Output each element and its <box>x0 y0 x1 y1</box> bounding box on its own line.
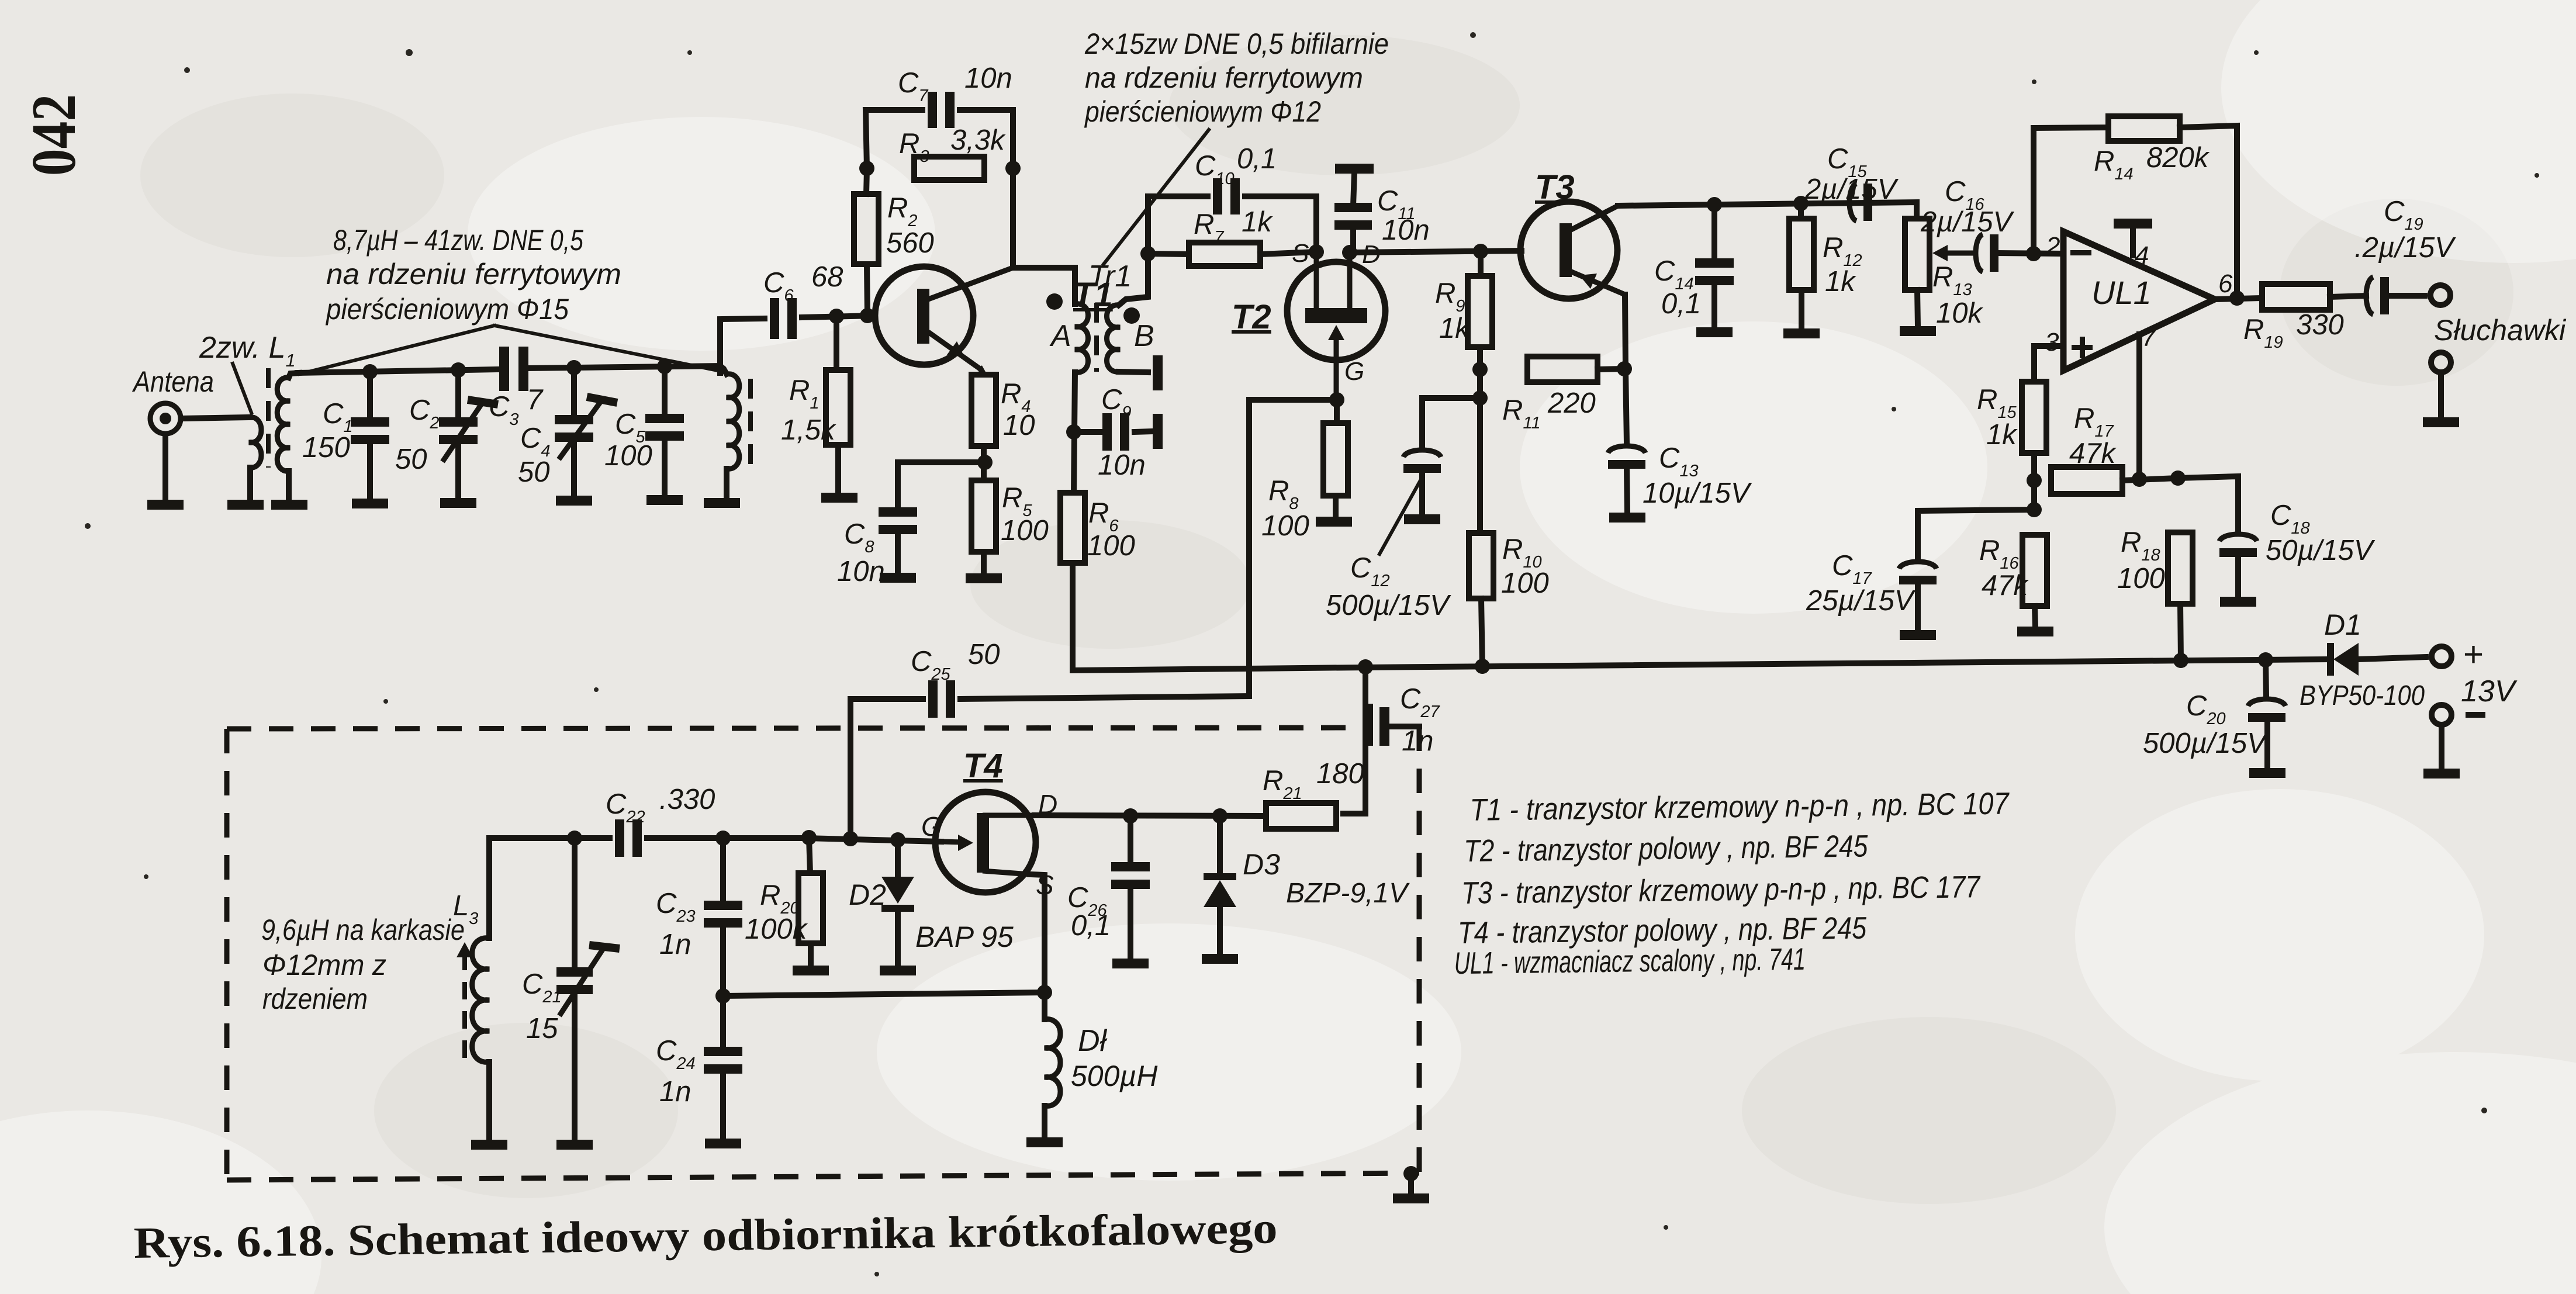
ground R8 <box>1316 517 1352 527</box>
svg-text:100: 100 <box>1001 515 1049 546</box>
transistor T1 (npn) <box>875 267 1013 369</box>
svg-text:100k: 100k <box>745 914 808 945</box>
svg-text:10k: 10k <box>1936 297 1984 329</box>
wire R19 to C19 <box>2330 296 2366 297</box>
svg-text:330: 330 <box>2296 309 2344 341</box>
wire R17 right <box>2122 478 2178 480</box>
wire C2 down <box>455 440 461 498</box>
label C1 150 <box>302 398 353 463</box>
wire antenna down <box>162 434 168 500</box>
capacitor C14 <box>1695 258 1734 285</box>
phase dot B <box>1123 307 1140 324</box>
node R20 tap <box>801 830 817 845</box>
wire T4 drain line <box>1035 815 1266 816</box>
wire feedback right <box>2180 126 2237 298</box>
tuning arrow L3 <box>457 942 473 1058</box>
svg-text:220: 220 <box>1547 387 1596 419</box>
node rail R10 <box>1475 659 1490 674</box>
node T2 source <box>1309 244 1324 260</box>
wire C4 <box>571 368 577 419</box>
wire C21 down <box>572 991 578 1140</box>
ground R20 <box>793 966 829 975</box>
wire R1 top <box>834 316 839 370</box>
label C5 100 <box>604 409 652 472</box>
resistor R2 <box>854 194 879 264</box>
svg-text:7: 7 <box>527 384 544 416</box>
svg-text:180: 180 <box>1316 758 1364 790</box>
wire to C8 <box>898 462 985 507</box>
node C26 tap <box>1123 808 1138 824</box>
label C20 500u/15V <box>2143 690 2269 759</box>
resistor R14 <box>2108 116 2180 141</box>
ground battery <box>2423 769 2460 779</box>
wire Dl down <box>1042 1106 1047 1137</box>
wiper arrow R13 <box>1932 245 1973 261</box>
svg-text:2µ/15V: 2µ/15V <box>1920 206 2015 238</box>
svg-text:na rdzeniu ferrytowym: na rdzeniu ferrytowym <box>326 258 621 290</box>
capacitor C22 <box>615 819 642 857</box>
resistor R1 <box>826 370 850 445</box>
ground L2 left <box>271 500 307 510</box>
wire R6 down to rail <box>1073 563 1362 670</box>
capacitor C1 <box>351 417 389 444</box>
svg-text:100: 100 <box>1261 510 1309 542</box>
svg-text:9,6µH na karkasie: 9,6µH na karkasie <box>261 914 465 946</box>
wire rail to R21 <box>1343 667 1365 814</box>
svg-text:0,1: 0,1 <box>1661 288 1701 320</box>
wire emitter to R4 <box>981 369 984 375</box>
label R10 100 <box>1501 534 1549 599</box>
pointer line L1 <box>233 364 251 413</box>
capacitor C17 (electrolytic) <box>1899 562 1937 584</box>
node source/osc tap <box>1037 985 1052 1000</box>
ground C1 <box>352 499 388 508</box>
label L3 <box>453 890 478 928</box>
svg-text:47k: 47k <box>1982 570 2029 601</box>
label C6 68 <box>763 261 843 305</box>
wire R11 right <box>1598 369 1624 369</box>
wire T3 collector line <box>1618 202 1917 219</box>
wire R15 to node <box>2031 453 2037 508</box>
svg-text:15: 15 <box>526 1013 558 1044</box>
wire D2 top <box>895 840 901 876</box>
label R17 47k <box>2069 403 2117 469</box>
svg-text:1k: 1k <box>1439 313 1471 344</box>
node D2 tap <box>890 832 905 847</box>
wire L2 right top curve <box>720 366 727 374</box>
label C17 25u/15V <box>1806 550 1916 617</box>
label R5 100 <box>1001 482 1049 546</box>
core line L2 right <box>748 379 753 468</box>
node C2 tap <box>451 362 466 378</box>
node R15/R17 <box>2027 473 2042 488</box>
wire R10 to rail <box>1481 598 1482 666</box>
wire C9 left <box>1074 429 1100 435</box>
wire Tr1 B bottom <box>1119 372 1148 372</box>
resistor R6 <box>1060 493 1085 563</box>
wire C10 loop <box>1148 196 1208 254</box>
wire Tr1 B top <box>1119 254 1148 305</box>
label Dl <box>1078 1024 1108 1058</box>
node output <box>2229 290 2245 306</box>
label R21 180 <box>1263 758 1364 803</box>
svg-text:2×15zw DNE 0,5 bifilarnie: 2×15zw DNE 0,5 bifilarnie <box>1084 27 1389 60</box>
wire R9 bottom <box>1477 347 1483 409</box>
terminal headphones + <box>2430 285 2450 305</box>
ground C20 <box>2249 768 2285 778</box>
wire C9 right <box>1135 431 1153 432</box>
core line L1 <box>266 368 271 468</box>
wire L2 left top curve <box>289 373 299 378</box>
resistor R18 <box>2168 532 2193 604</box>
svg-text:10µ/15V: 10µ/15V <box>1643 478 1752 509</box>
diode D2 <box>881 877 914 912</box>
wire T3 emitter down <box>1625 295 1626 369</box>
svg-text:.2µ/15V: .2µ/15V <box>2354 232 2456 264</box>
wire emitter to C13 <box>1626 369 1627 443</box>
capacitor C9 <box>1102 413 1129 451</box>
node R12 tap <box>1793 196 1809 211</box>
svg-text:50: 50 <box>395 444 427 475</box>
wire output to R19 <box>2215 298 2261 299</box>
wire pin3 to R15 <box>2034 346 2062 381</box>
svg-text:Słuchawki: Słuchawki <box>2434 314 2567 347</box>
svg-text:820k: 820k <box>2146 142 2210 174</box>
node rail R18 <box>2173 653 2188 668</box>
ground R12 <box>1783 328 1820 338</box>
resistor R21 <box>1266 803 1336 829</box>
ground D3 <box>1202 954 1238 964</box>
svg-text:pierścieniowym Φ15: pierścieniowym Φ15 <box>325 293 569 326</box>
ground Dl <box>1026 1137 1063 1147</box>
wire tank bus right <box>529 366 720 368</box>
label C7 10n <box>898 63 1012 105</box>
capacitor C4 (variable) <box>555 415 593 442</box>
diode D1 <box>2327 643 2359 676</box>
ground C13 <box>1609 513 1645 523</box>
wire C5 down <box>662 436 668 495</box>
capacitor C3 (series) <box>499 347 528 391</box>
node C23/C24 <box>715 988 731 1004</box>
svg-text:2zw. L1: 2zw. L1 <box>199 331 296 371</box>
label 2zw. L1 <box>199 331 296 371</box>
label C8 10n <box>837 518 885 587</box>
capacitor C7 <box>928 92 955 128</box>
wire C21 <box>572 838 578 970</box>
wire R9 top <box>1478 251 1484 276</box>
capacitor C8 <box>879 507 917 534</box>
wire L2 left down <box>286 471 292 500</box>
wire C22 right <box>647 835 807 841</box>
svg-text:100: 100 <box>1087 530 1135 562</box>
label C12 500u/15V <box>1326 552 1451 621</box>
wire Tr1 A bottom down <box>1074 372 1075 493</box>
resistor R15 <box>2022 382 2046 453</box>
resistor R13 (pot) <box>1905 219 1930 290</box>
wire R4 to R5 <box>981 446 987 480</box>
label R18 100 <box>2117 527 2165 594</box>
ground C5 <box>646 495 683 505</box>
capacitor C2 (variable) <box>439 417 478 444</box>
wire to C17 <box>1918 510 2034 559</box>
label R19 330 <box>2243 309 2344 352</box>
wire C24 down <box>720 1072 726 1139</box>
label R9 1k <box>1435 278 1471 344</box>
node C4 tap <box>566 360 582 375</box>
svg-text:2: 2 <box>2045 232 2060 261</box>
wire R5 down <box>981 552 987 573</box>
wire C5 <box>662 366 668 418</box>
svg-text:D1: D1 <box>2324 608 2361 641</box>
label C9 10n <box>1098 384 1146 481</box>
node R1 tap <box>829 309 844 324</box>
wire C12 down <box>1419 473 1425 514</box>
terminal -13V <box>2432 705 2451 725</box>
wire R12 down <box>1799 290 1804 328</box>
ground R1 <box>821 493 857 503</box>
capacitor C16 (electrolytic) <box>1976 234 1998 272</box>
node R18 tap <box>2170 470 2186 486</box>
svg-text:1k: 1k <box>1242 206 1273 238</box>
ground antenna <box>147 500 184 510</box>
wire C12 branch <box>1422 398 1480 447</box>
node C23 tap <box>715 831 731 846</box>
wire D1 to terminal <box>2359 657 2426 659</box>
wire C26 <box>1128 816 1133 864</box>
ground C14 <box>1696 327 1733 337</box>
wire C20 branch <box>2266 660 2266 696</box>
capacitor C25 <box>928 680 955 718</box>
svg-text:100: 100 <box>2117 563 2165 594</box>
ground C17 <box>1900 630 1936 640</box>
wire gate to R8 <box>1334 400 1340 423</box>
svg-text:UL1: UL1 <box>2091 274 2152 311</box>
wire to C18 <box>2178 476 2238 531</box>
phase dot A <box>1046 293 1063 310</box>
arrow C21 <box>559 945 620 1016</box>
label C4 50 <box>518 423 551 488</box>
wire -13V down <box>2439 725 2444 769</box>
label C16 2u/15V <box>1920 176 2015 238</box>
label R16 47k <box>1979 535 2029 601</box>
transformer Tr1 winding B <box>1107 305 1121 372</box>
arrow C2 <box>442 400 498 462</box>
label R1 1,5k <box>781 375 836 446</box>
wire D2 down <box>895 912 901 966</box>
ground C8 <box>880 573 916 583</box>
capacitor C27 right plate <box>1379 707 1389 746</box>
resistor R9 <box>1468 276 1492 347</box>
resistor R10 <box>1469 533 1493 598</box>
wire osc bus <box>575 835 610 841</box>
ground L3 <box>471 1140 507 1150</box>
wire L1 primary down <box>247 468 253 500</box>
node R3 left <box>859 161 874 176</box>
svg-text:042: 042 <box>19 94 89 176</box>
svg-text:D3: D3 <box>1243 848 1280 881</box>
svg-text:0,1: 0,1 <box>1071 910 1111 942</box>
svg-text:10n: 10n <box>1382 214 1430 246</box>
label R13 10k <box>1932 261 1984 329</box>
transistor T3 (pnp) <box>1520 202 1625 299</box>
svg-text:68: 68 <box>811 261 843 293</box>
ground C2 <box>440 498 476 508</box>
svg-text:T1 - tranzystor krzemowy n-p: T1 - tranzystor krzemowy n-p-n , np. BC … <box>1469 787 2010 828</box>
wire collector riser <box>1010 168 1016 268</box>
node emitter/R11 <box>1617 361 1632 376</box>
wire C13 down <box>1627 469 1627 513</box>
wire C19 to jack <box>2385 293 2425 299</box>
resistor R17 <box>2051 467 2122 494</box>
wire feedback riser <box>2031 128 2036 254</box>
wire C26 down <box>1128 887 1133 959</box>
svg-text:7: 7 <box>2142 323 2157 352</box>
terminal bar C9 <box>1153 414 1163 449</box>
label R14 820k <box>2094 142 2210 184</box>
wire jack2 down <box>2438 372 2444 417</box>
node C14 tap <box>1707 197 1722 212</box>
resistor R12 <box>1789 219 1814 290</box>
label R20 100k <box>745 880 808 945</box>
ground C21 <box>556 1140 593 1150</box>
node C21 tap <box>567 831 582 846</box>
capacitor C13 (electrolytic) <box>1608 446 1645 469</box>
svg-text:1n: 1n <box>659 1076 691 1108</box>
svg-text:10: 10 <box>1003 410 1035 441</box>
svg-text:3: 3 <box>2045 328 2059 357</box>
svg-text:S: S <box>1292 239 1309 268</box>
wire C6 to T1 base <box>802 316 875 317</box>
svg-text:10n: 10n <box>837 556 885 587</box>
label R12 1k <box>1823 232 1862 297</box>
wire C23 to C24 <box>720 926 726 1049</box>
wire R8 down <box>1333 496 1339 517</box>
label R7 1k <box>1194 206 1273 247</box>
resistor R3 <box>914 157 984 180</box>
capacitor C26 <box>1111 862 1150 889</box>
label C13 10u/15V <box>1643 442 1752 509</box>
pointer line coil right <box>495 326 718 371</box>
svg-text:BAP 95: BAP 95 <box>915 921 1014 953</box>
svg-text:1k: 1k <box>1825 266 1856 297</box>
wire tank to C6 <box>720 319 765 373</box>
capacitor C11 <box>1334 203 1372 230</box>
svg-text:560: 560 <box>886 227 934 259</box>
wire feedback top <box>2034 127 2111 128</box>
resistor R20 <box>798 873 823 943</box>
svg-text:13V: 13V <box>2461 674 2518 708</box>
wire shield ground <box>1408 1174 1414 1193</box>
wire L2 right down <box>724 469 729 498</box>
node C5 tap <box>657 359 672 374</box>
wire C20 down <box>2264 722 2270 768</box>
node rail C20 <box>2258 652 2273 667</box>
label C21 15 <box>522 968 562 1044</box>
svg-text:T4: T4 <box>963 747 1003 785</box>
label C11 10n <box>1377 185 1430 246</box>
capacitor C23 <box>704 901 742 928</box>
svg-text:500µ/15V: 500µ/15V <box>1326 590 1451 621</box>
svg-text:10n: 10n <box>964 63 1012 94</box>
label C23 1n <box>656 888 696 960</box>
node T1 base node <box>860 308 875 323</box>
wire C4 down <box>571 437 577 496</box>
wire R2 to base <box>867 264 867 316</box>
svg-text:50µ/15V: 50µ/15V <box>2266 535 2376 566</box>
wire C11 top <box>1353 173 1354 206</box>
wire drain line <box>1350 251 1522 252</box>
svg-text:500µH: 500µH <box>1071 1060 1158 1092</box>
svg-text:D2: D2 <box>849 878 886 911</box>
label C26 0,1 <box>1067 882 1111 942</box>
resistor R19 <box>2262 284 2330 310</box>
svg-text:6: 6 <box>2218 269 2233 298</box>
resistor R8 <box>1323 423 1348 496</box>
svg-text:.330: .330 <box>659 784 715 815</box>
wire C14 down <box>1711 285 1717 327</box>
capacitor C19 (electrolytic) <box>2366 277 2389 314</box>
inductor L3 (4 turns) <box>472 938 489 1063</box>
svg-text:25µ/15V: 25µ/15V <box>1806 585 1916 617</box>
wire R16 down <box>2035 606 2035 627</box>
node R3 right / collector <box>1005 161 1021 176</box>
label R15 1k <box>1977 384 2018 451</box>
capacitor C6 <box>770 298 797 339</box>
node R9/R11 <box>1472 362 1488 377</box>
pointer line C12 <box>1379 480 1420 554</box>
svg-text:UL1 - wzmacniacz scalony , n: UL1 - wzmacniacz scalony , np. 741 <box>1454 942 1806 981</box>
capacitor C18 (electrolytic) <box>2219 534 2257 557</box>
ground C4 <box>556 496 592 506</box>
svg-text:1,5k: 1,5k <box>781 414 836 446</box>
capacitor C21 (variable) <box>556 967 593 994</box>
label R11 220 <box>1502 387 1596 433</box>
svg-text:Tr1: Tr1 <box>1088 260 1132 293</box>
wire R18 to rail <box>2180 604 2181 660</box>
transistor T4 (jfet) <box>935 792 1036 892</box>
resistor R16 <box>2022 535 2047 606</box>
wire C23 <box>720 838 726 902</box>
ground C26 <box>1112 959 1149 968</box>
svg-text:1k: 1k <box>1986 419 2018 451</box>
ground R13 <box>1900 326 1936 336</box>
label C24 1n <box>656 1035 696 1108</box>
label C14 0,1 <box>1654 255 1701 320</box>
svg-text:47k: 47k <box>2069 438 2117 469</box>
label C2 50 <box>395 395 440 475</box>
svg-text:BYP50-100: BYP50-100 <box>2300 680 2425 711</box>
capacitor C5 <box>645 414 684 441</box>
svg-text:10n: 10n <box>1098 449 1146 481</box>
wire C2 <box>455 370 461 422</box>
wire C7 loop left <box>866 110 922 168</box>
svg-text:G: G <box>921 811 942 842</box>
minus sign <box>2070 250 2091 255</box>
node D3 tap <box>1212 808 1228 824</box>
node R4/R5 <box>977 455 993 470</box>
svg-text:3,3k: 3,3k <box>950 124 1006 156</box>
svg-text:rdzeniem: rdzeniem <box>262 982 368 1015</box>
svg-text:2µ/15V: 2µ/15V <box>1804 174 1899 205</box>
wire gate left <box>1249 400 1337 696</box>
svg-text:8,7µH – 41zw. DNE 0,5: 8,7µH – 41zw. DNE 0,5 <box>333 224 583 257</box>
node inverting input <box>2026 246 2041 261</box>
svg-text:T3 - tranzystor krzemowy p-n: T3 - tranzystor krzemowy p-n-p , np. BC … <box>1461 870 1982 911</box>
svg-text:pierścieniowym Φ12: pierścieniowym Φ12 <box>1084 95 1321 128</box>
wire C11 <box>1350 227 1356 252</box>
wire C14 <box>1711 205 1717 258</box>
wire R1 bottom <box>835 445 841 493</box>
